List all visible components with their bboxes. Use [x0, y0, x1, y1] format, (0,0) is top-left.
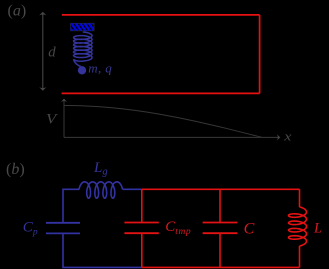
capacitor C_p	[46, 223, 80, 234]
wire: red right branch upper	[299, 189, 301, 207]
wire: red top	[142, 188, 300, 190]
svg-text:(b): (b)	[6, 161, 25, 178]
wire: red left branch upper	[141, 189, 143, 222]
panel label (b)	[6, 161, 25, 178]
bottom capacitor plate (red)	[62, 92, 260, 94]
wire: red middle branch lower	[219, 233, 221, 267]
svg-text:Cp: Cp	[23, 219, 38, 237]
wire: red middle branch upper	[219, 189, 221, 222]
panel label (a)	[8, 3, 27, 20]
svg-text:d: d	[48, 44, 56, 60]
svg-text:m, q: m, q	[88, 61, 112, 76]
svg-text:C: C	[244, 220, 255, 237]
capacitor C	[203, 223, 238, 234]
V axis	[61, 99, 67, 138]
mass ball m,q	[78, 66, 86, 74]
svg-text:Lg: Lg	[93, 160, 108, 178]
svg-text:V: V	[46, 111, 58, 127]
wire: red left branch lower	[141, 233, 143, 267]
wire: blue top (left segment)	[63, 189, 79, 222]
svg-text:Ctmp: Ctmp	[165, 219, 191, 237]
inductor L_g	[79, 182, 123, 198]
wire: red bottom	[142, 266, 300, 268]
svg-text:L: L	[313, 221, 322, 237]
x axis	[64, 134, 280, 140]
potential curve	[64, 106, 262, 138]
wire: blue bottom	[63, 233, 142, 267]
hatched support block	[67, 23, 100, 32]
top capacitor plate (red)	[62, 14, 260, 16]
svg-text:(a): (a)	[8, 3, 27, 20]
wire: blue top (right segment to junction)	[123, 188, 142, 190]
capacitor C_tmp	[124, 223, 158, 234]
dimension arrow d	[39, 12, 46, 91]
inductor L	[289, 207, 307, 246]
spring	[74, 32, 93, 67]
wire: red right branch lower	[299, 246, 301, 267]
right edge (red)	[259, 15, 261, 94]
svg-text:x: x	[283, 129, 292, 144]
